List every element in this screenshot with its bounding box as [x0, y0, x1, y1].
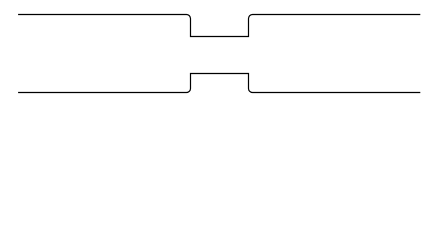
- upper boundary wall (line with notch stepping down): [18, 15, 420, 37]
- lower boundary wall (line with notch stepping up): [18, 74, 420, 93]
